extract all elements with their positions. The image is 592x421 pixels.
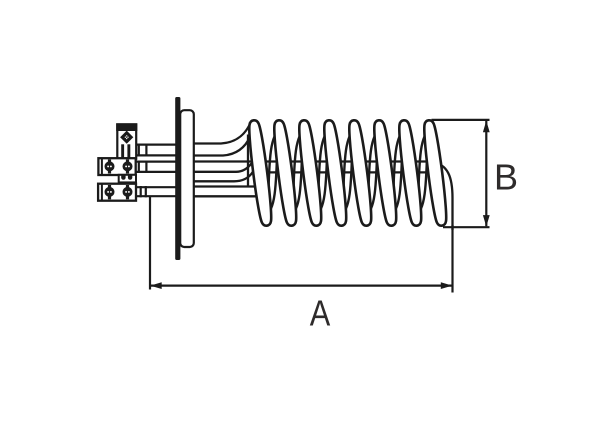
wire: bottom tube right of flange <box>194 187 257 197</box>
dimension B bottom arrowhead <box>483 215 490 227</box>
dimension A left arrowhead <box>150 282 162 289</box>
wire: top tube ferrule ticks <box>139 144 147 157</box>
dimension A left extension line <box>149 196 151 290</box>
bracket between blocks <box>119 175 136 183</box>
wire: top tube bend up to coil <box>194 121 253 156</box>
coil turn 2 <box>277 124 294 221</box>
wire: middle tube ferrule ticks <box>139 161 147 174</box>
coil turn 7 <box>402 124 419 221</box>
wire: coil tail bend down at right end <box>432 162 453 230</box>
dimension A right arrowhead <box>441 282 453 289</box>
terminal block bottom <box>98 184 136 201</box>
coil rear strand 1 <box>267 136 278 209</box>
screw head 3 <box>105 187 115 197</box>
dimension A line <box>151 285 452 287</box>
flange hub (rounded) <box>180 110 194 247</box>
dimension B line <box>485 121 487 227</box>
wire: top tube left pair (flange to terminal post) <box>135 145 177 156</box>
wire: bottom tube ferrule ticks <box>141 186 146 197</box>
nut (diamond) on top post <box>120 131 133 144</box>
wire: second tube upper line with bend <box>194 163 252 172</box>
dimension B top extension line <box>432 119 490 121</box>
dimension B bottom extension line <box>443 226 490 228</box>
screw head 2 <box>123 161 133 171</box>
coil turn 8 <box>427 124 444 221</box>
coil rear strand 6 <box>392 136 403 209</box>
tube end plate <box>247 135 249 188</box>
coil rear strand 3 <box>317 136 328 209</box>
wire: bottom tube left pair <box>135 187 177 196</box>
svg-text:A: A <box>310 293 331 334</box>
coil rear strand 2 <box>292 136 303 209</box>
wire: middle tube left pair <box>135 162 177 172</box>
dimension A right extension line <box>451 225 453 293</box>
post prongs <box>121 144 124 158</box>
coil turn 6 <box>377 124 394 221</box>
coil rear strand 5 <box>367 136 378 209</box>
flange plate <box>175 97 180 260</box>
coil turn 5 <box>352 124 369 221</box>
screw head 4 <box>123 187 133 197</box>
svg-text:B: B <box>494 157 518 198</box>
coil turn 3 <box>302 124 319 221</box>
terminal post top (insulator) <box>116 123 137 158</box>
dimension B top arrowhead <box>483 121 490 133</box>
coil turn 4 <box>327 124 344 221</box>
wire: straight tube upper line through coil <box>194 160 437 162</box>
coil turn 1 <box>252 124 269 221</box>
coil rear strand 4 <box>342 136 353 209</box>
coil rear strand 7 <box>417 136 428 209</box>
terminal block middle <box>98 158 135 175</box>
wire: second tube lower line bending into through run <box>194 172 437 181</box>
screw head 1 <box>105 161 115 171</box>
